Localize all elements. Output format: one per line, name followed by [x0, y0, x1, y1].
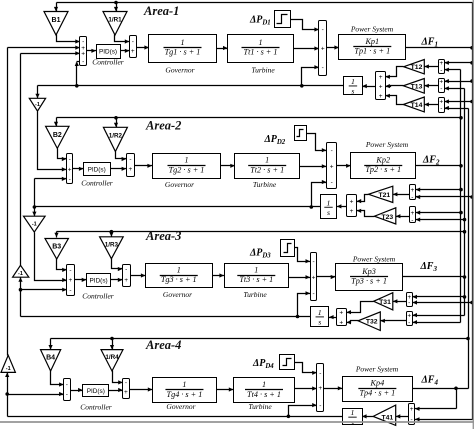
- svg-text:-: -: [322, 27, 324, 34]
- svg-text:-: -: [312, 258, 314, 265]
- svg-text:Controller: Controller: [92, 58, 123, 67]
- svg-text:+: +: [379, 74, 383, 81]
- svg-text:Tt3 · s + 1: Tt3 · s + 1: [239, 275, 273, 284]
- svg-text:-: -: [331, 147, 333, 154]
- svg-text:T14: T14: [411, 102, 423, 109]
- svg-text:+: +: [407, 312, 411, 319]
- svg-text:+: +: [330, 164, 334, 171]
- svg-text:1: 1: [318, 308, 322, 317]
- svg-text:-: -: [69, 176, 71, 183]
- svg-text:Tg4 · s + 1: Tg4 · s + 1: [167, 390, 203, 399]
- svg-text:Turbine: Turbine: [248, 402, 272, 411]
- svg-text:+: +: [318, 385, 322, 392]
- svg-text:+: +: [124, 389, 128, 396]
- svg-text:+: +: [124, 277, 128, 284]
- svg-text:T31: T31: [379, 299, 391, 306]
- svg-text:+: +: [131, 48, 135, 55]
- svg-text:-: -: [331, 179, 333, 186]
- svg-text:Kp3: Kp3: [361, 267, 376, 276]
- svg-text:-: -: [440, 105, 442, 112]
- svg-text:-: -: [319, 370, 321, 377]
- svg-text:Governor: Governor: [165, 66, 194, 75]
- svg-text:Power System: Power System: [350, 25, 394, 34]
- svg-text:Tt1 · s + 1: Tt1 · s + 1: [244, 48, 278, 57]
- svg-text:+: +: [379, 83, 383, 90]
- svg-text:-: -: [125, 266, 127, 273]
- svg-text:-: -: [411, 217, 413, 224]
- svg-text:+: +: [312, 274, 316, 281]
- svg-text:-: -: [66, 391, 68, 398]
- svg-text:+: +: [410, 187, 414, 194]
- svg-text:B1: B1: [52, 17, 61, 24]
- svg-text:-1: -1: [18, 271, 23, 277]
- svg-text:1/R2: 1/R2: [109, 132, 123, 139]
- svg-text:1/R1: 1/R1: [108, 17, 122, 24]
- svg-text:T21: T21: [378, 192, 390, 199]
- svg-text:-: -: [66, 382, 68, 389]
- svg-text:Power System: Power System: [355, 365, 399, 374]
- svg-text:T12: T12: [411, 64, 423, 71]
- svg-text:PID(s): PID(s): [99, 49, 117, 56]
- svg-text:Tp2 · s + 1: Tp2 · s + 1: [365, 165, 401, 174]
- svg-text:Governor: Governor: [166, 402, 195, 411]
- svg-text:Controller: Controller: [80, 403, 111, 412]
- svg-text:-: -: [69, 287, 71, 294]
- svg-text:+: +: [350, 208, 354, 215]
- svg-text:+: +: [410, 406, 414, 413]
- svg-text:Area-3: Area-3: [145, 229, 181, 243]
- svg-text:PID(s): PID(s): [90, 278, 108, 285]
- svg-text:s: s: [318, 318, 321, 327]
- svg-text:B4: B4: [46, 355, 55, 362]
- svg-text:Tt4 · s + 1: Tt4 · s + 1: [247, 390, 281, 399]
- svg-text:1: 1: [327, 198, 331, 207]
- svg-text:+: +: [129, 166, 133, 173]
- svg-text:1: 1: [351, 408, 355, 417]
- svg-text:1/R4: 1/R4: [105, 354, 119, 361]
- svg-text:-1: -1: [32, 222, 37, 228]
- svg-text:T23: T23: [381, 214, 393, 221]
- svg-text:Kp4: Kp4: [370, 379, 385, 388]
- svg-text:1: 1: [180, 38, 184, 47]
- svg-text:1: 1: [265, 156, 269, 165]
- svg-text:-: -: [408, 319, 410, 326]
- svg-text:s: s: [327, 208, 330, 217]
- svg-text:-: -: [69, 267, 71, 274]
- svg-text:Governor: Governor: [163, 290, 192, 299]
- svg-text:Controller: Controller: [81, 178, 112, 187]
- svg-text:Area-1: Area-1: [143, 4, 179, 18]
- svg-text:B3: B3: [52, 244, 61, 251]
- svg-text:Tp4 · s + 1: Tp4 · s + 1: [359, 388, 395, 397]
- svg-text:Turbine: Turbine: [243, 290, 267, 299]
- svg-text:T13: T13: [411, 83, 423, 90]
- svg-text:1: 1: [184, 156, 188, 165]
- svg-text:+: +: [339, 309, 343, 316]
- svg-text:B2: B2: [53, 132, 62, 139]
- svg-text:T41: T41: [381, 414, 393, 421]
- svg-text:+: +: [69, 277, 73, 284]
- svg-text:-1: -1: [35, 102, 40, 108]
- svg-text:+: +: [439, 78, 443, 85]
- svg-text:+: +: [410, 210, 414, 217]
- svg-text:Power System: Power System: [365, 140, 409, 149]
- svg-text:1: 1: [262, 380, 266, 389]
- svg-text:Tg1 · s + 1: Tg1 · s + 1: [165, 48, 201, 57]
- svg-text:1: 1: [258, 38, 262, 47]
- svg-text:s: s: [351, 87, 354, 96]
- svg-text:1: 1: [351, 77, 355, 86]
- svg-text:PID(s): PID(s): [88, 167, 106, 174]
- svg-text:Power System: Power System: [352, 255, 396, 264]
- svg-text:Kp2: Kp2: [375, 155, 390, 164]
- svg-text:1/R3: 1/R3: [105, 242, 119, 249]
- svg-text:-: -: [408, 300, 410, 307]
- svg-text:+: +: [379, 93, 383, 100]
- svg-text:1: 1: [254, 265, 258, 274]
- svg-text:Tp1 · s + 1: Tp1 · s + 1: [354, 46, 390, 55]
- svg-text:-: -: [82, 59, 84, 66]
- svg-text:+: +: [350, 198, 354, 205]
- svg-text:Tg3 · s + 1: Tg3 · s + 1: [161, 275, 197, 284]
- svg-text:Kp1: Kp1: [364, 37, 379, 46]
- svg-text:+: +: [68, 167, 72, 174]
- svg-text:-1: -1: [6, 366, 11, 372]
- svg-text:-: -: [125, 380, 127, 387]
- svg-text:1: 1: [177, 265, 181, 274]
- svg-text:1: 1: [182, 380, 186, 389]
- svg-text:-: -: [322, 64, 324, 71]
- svg-text:+: +: [321, 46, 325, 53]
- svg-text:Turbine: Turbine: [251, 66, 275, 75]
- svg-text:PID(s): PID(s): [87, 388, 105, 395]
- svg-text:-: -: [440, 86, 442, 93]
- svg-text:-: -: [440, 67, 442, 74]
- svg-text:-: -: [319, 402, 321, 409]
- svg-text:-: -: [129, 156, 131, 163]
- svg-text:Turbine: Turbine: [253, 180, 277, 189]
- svg-text:Governor: Governor: [165, 180, 194, 189]
- svg-text:-: -: [411, 194, 413, 201]
- svg-text:Tp3 · s + 1: Tp3 · s + 1: [351, 277, 387, 286]
- svg-text:+: +: [339, 320, 343, 327]
- svg-text:T32: T32: [366, 319, 378, 326]
- svg-text:Area-4: Area-4: [145, 338, 181, 352]
- svg-text:Tg2 · s + 1: Tg2 · s + 1: [169, 165, 205, 174]
- svg-text:Controller: Controller: [82, 292, 113, 301]
- svg-text:-: -: [132, 39, 134, 46]
- svg-text:Area-2: Area-2: [145, 119, 181, 133]
- svg-text:+: +: [81, 51, 85, 58]
- svg-text:-: -: [69, 156, 71, 163]
- svg-text:Tt2 · s + 1: Tt2 · s + 1: [250, 165, 284, 174]
- svg-text:-: -: [312, 291, 314, 298]
